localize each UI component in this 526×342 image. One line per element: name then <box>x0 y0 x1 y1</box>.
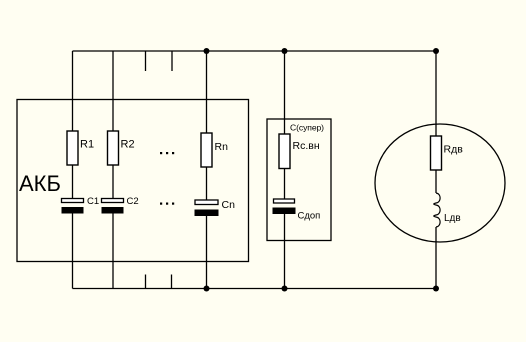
capacitor Сдоп <box>273 199 296 214</box>
wire stub omitted branch top 1 <box>145 51 147 71</box>
wire top bus <box>73 50 437 52</box>
ellipsis omitted capacitors <box>160 203 174 205</box>
node junction bottom motor <box>433 286 439 292</box>
svg-text:Сдоп: Сдоп <box>298 211 321 222</box>
inductor Lдв <box>434 193 440 227</box>
resistor Rn <box>201 133 212 167</box>
capacitor C2 <box>102 199 124 214</box>
battery block АКБ <box>17 100 249 262</box>
node junction top Rn <box>204 48 210 54</box>
resistor R2 <box>108 131 119 165</box>
wire Rn to Cn <box>206 167 208 200</box>
node junction bottom supercap <box>282 286 288 292</box>
wire C1 to bottom bus <box>72 214 74 289</box>
wire Сдоп to bottom bus <box>284 214 286 289</box>
svg-text:R2: R2 <box>121 139 135 151</box>
wire bottom bus <box>73 288 437 290</box>
wire stub omitted branch top 2 <box>171 51 173 71</box>
motor circle <box>375 124 505 242</box>
capacitor C1 <box>62 199 84 214</box>
svg-text:С(супер): С(супер) <box>290 123 324 133</box>
wire C2 to bottom bus <box>112 214 114 289</box>
node junction top supercap <box>282 48 288 54</box>
wire Rс.вн to Сдоп <box>284 169 286 200</box>
wire R2 branch top <box>112 51 114 131</box>
wire stub omitted branch bottom 2 <box>171 275 173 289</box>
resistor R1 <box>67 131 78 165</box>
svg-text:Cn: Cn <box>222 199 236 211</box>
wire R1 to C1 <box>72 165 74 199</box>
capacitor Cn <box>195 200 219 216</box>
resistor Rс.вн <box>279 134 290 169</box>
wire supercap branch top <box>284 51 286 134</box>
wire R1 branch top <box>72 51 74 131</box>
supercapacitor block <box>267 119 331 241</box>
node junction bottom Cn <box>204 286 210 292</box>
svg-text:C1: C1 <box>87 196 99 207</box>
svg-text:Rс.вн: Rс.вн <box>293 140 320 152</box>
wire stub omitted branch bottom 1 <box>145 275 147 289</box>
node junction top motor <box>433 48 439 54</box>
svg-text:Rдв: Rдв <box>444 144 464 156</box>
wire motor branch top <box>435 51 437 136</box>
svg-text:Lдв: Lдв <box>444 213 461 224</box>
wire Rn branch top <box>206 51 208 133</box>
svg-text:R1: R1 <box>80 139 94 151</box>
wire Rдв to Lдв <box>435 170 437 193</box>
wire Lдв to bottom bus <box>435 227 437 289</box>
resistor Rдв <box>431 136 442 170</box>
ellipsis omitted resistors <box>160 152 174 154</box>
wire Cn to bottom bus <box>206 216 208 289</box>
svg-text:АКБ: АКБ <box>19 171 61 196</box>
svg-text:Rn: Rn <box>215 141 229 153</box>
wire R2 to C2 <box>112 165 114 199</box>
svg-text:C2: C2 <box>127 196 139 207</box>
